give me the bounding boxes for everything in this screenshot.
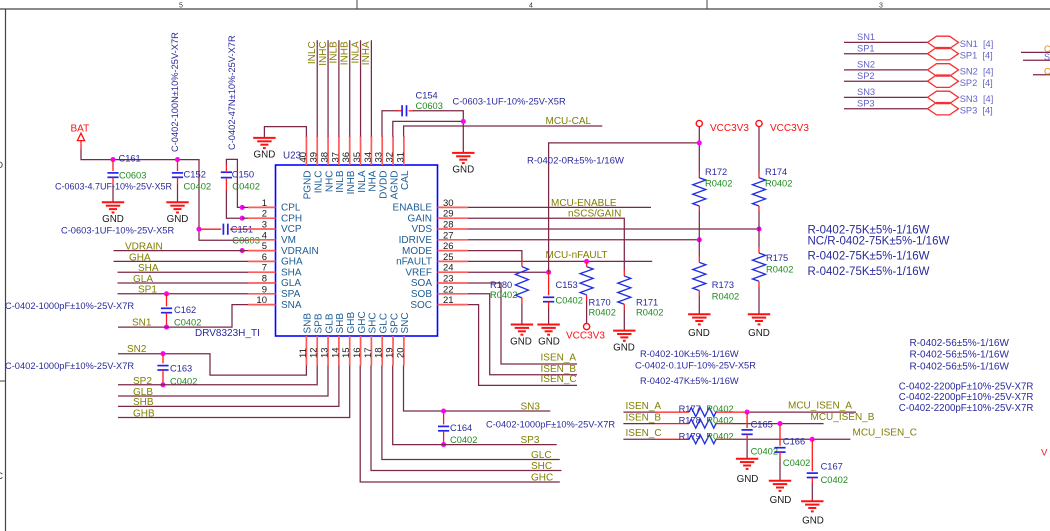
junction VCC3V3/0R xyxy=(697,140,702,145)
svg-text:SP3: SP3 xyxy=(857,98,875,108)
wire SNC to SN3 xyxy=(404,366,551,412)
svg-text:C-0402-47N±10%-25V-X7R: C-0402-47N±10%-25V-X7R xyxy=(227,35,237,150)
junction nFAULT/R170 xyxy=(584,259,589,264)
svg-text:10: 10 xyxy=(256,295,267,306)
svg-text:C-0402-2200pF±10%-25V-X7R: C-0402-2200pF±10%-25V-X7R xyxy=(899,392,1034,403)
value list ISEN notes xyxy=(635,349,756,386)
wire VREF to VCC3V3 via 0R xyxy=(549,143,700,272)
svg-text:C150: C150 xyxy=(232,169,254,180)
wire SN1 row to SNA xyxy=(118,305,248,328)
svg-text:37: 37 xyxy=(330,152,341,163)
svg-text:GND: GND xyxy=(254,149,276,160)
wire VDRAIN row xyxy=(114,250,249,252)
pin 1 CPL xyxy=(248,206,276,208)
svg-text:S: S xyxy=(1044,52,1050,62)
capacitor C165 xyxy=(742,412,753,459)
wire R172 to R173 xyxy=(698,206,700,262)
svg-text:25: 25 xyxy=(443,252,454,263)
svg-text:GND: GND xyxy=(167,214,189,225)
svg-text:C0402: C0402 xyxy=(556,295,583,305)
ground below C153 xyxy=(537,325,559,335)
svg-text:MCU_ISEN_C: MCU_ISEN_C xyxy=(853,428,917,439)
svg-text:GND: GND xyxy=(538,337,560,348)
svg-text:INLA: INLA xyxy=(357,170,368,193)
svg-text:GHB: GHB xyxy=(346,312,357,334)
op-amp U23 DRV8323H_TI body xyxy=(276,165,438,336)
svg-text:VCP: VCP xyxy=(281,224,302,235)
svg-text:INLB: INLB xyxy=(335,170,346,193)
svg-text:MODE: MODE xyxy=(402,246,432,257)
svg-text:GLB: GLB xyxy=(324,313,335,333)
capacitor C166 xyxy=(774,424,785,481)
svg-text:INHA: INHA xyxy=(361,41,372,65)
off-page connector SN3 xyxy=(928,91,959,103)
svg-text:GHB: GHB xyxy=(133,408,155,419)
svg-text:ISEN_C: ISEN_C xyxy=(541,374,577,385)
wire AGND to ground xyxy=(393,121,464,136)
resistor R172 xyxy=(693,178,706,206)
svg-text:SHC: SHC xyxy=(531,461,552,472)
power VCC3V3 below R170 xyxy=(584,324,590,330)
svg-text:SN1 [4]: SN1 [4] xyxy=(960,39,994,49)
svg-text:GLA: GLA xyxy=(281,278,301,289)
svg-text:R0402: R0402 xyxy=(705,179,732,189)
svg-text:C167: C167 xyxy=(821,462,843,472)
svg-text:R178: R178 xyxy=(679,416,701,426)
svg-text:NHC: NHC xyxy=(324,171,335,193)
svg-text:35: 35 xyxy=(352,152,363,163)
power VCC3V3 rail 1 xyxy=(696,120,702,126)
svg-text:15: 15 xyxy=(341,347,352,358)
svg-text:R0402: R0402 xyxy=(636,308,663,318)
ground below R175 xyxy=(748,314,770,324)
svg-text:VREF: VREF xyxy=(405,267,432,278)
svg-text:26: 26 xyxy=(443,241,454,252)
svg-text:C0402: C0402 xyxy=(821,475,848,485)
svg-text:ENABLE: ENABLE xyxy=(393,203,433,214)
svg-text:6: 6 xyxy=(262,252,267,263)
svg-text:R-0402-56±5%-1/16W: R-0402-56±5%-1/16W xyxy=(910,350,1010,361)
pin 9 SPA xyxy=(248,293,276,295)
svg-text:DVDD: DVDD xyxy=(379,171,390,199)
svg-text:C164: C164 xyxy=(450,423,472,433)
wire GHC row xyxy=(360,366,560,483)
svg-text:16: 16 xyxy=(352,347,363,358)
svg-text:C0402: C0402 xyxy=(783,458,810,468)
ground below C165 xyxy=(736,459,758,469)
junction BAT/C152 xyxy=(175,157,180,162)
pin 29 GAIN xyxy=(438,217,469,219)
junction SN1/C162 xyxy=(164,325,169,330)
wire INHC xyxy=(327,40,329,136)
wire GAIN nSCS/GAIN to R171 xyxy=(468,218,624,270)
svg-text:SP1: SP1 xyxy=(138,285,157,296)
svg-text:SN2: SN2 xyxy=(857,60,875,70)
pin 30 ENABLE xyxy=(438,206,469,208)
svg-text:SN2 [4]: SN2 [4] xyxy=(960,67,994,77)
svg-text:R172: R172 xyxy=(705,167,727,177)
svg-text:29: 29 xyxy=(443,209,454,220)
svg-text:SP2 [4]: SP2 [4] xyxy=(960,78,993,88)
wire GHB row xyxy=(118,366,350,418)
svg-text:20: 20 xyxy=(395,347,406,358)
pin 20 SNC xyxy=(403,336,405,366)
svg-text:C152: C152 xyxy=(184,169,206,180)
svg-text:C154: C154 xyxy=(416,90,438,100)
svg-text:MCU_ISEN_B: MCU_ISEN_B xyxy=(811,412,875,423)
svg-text:24: 24 xyxy=(443,263,454,274)
ground below R171 xyxy=(613,331,635,341)
svg-text:MCU_ISEN_A: MCU_ISEN_A xyxy=(788,401,852,412)
pin 40 PGND xyxy=(305,136,307,165)
wire SN3 to connector xyxy=(844,96,928,98)
svg-text:SP2: SP2 xyxy=(857,71,875,81)
svg-text:DRV8323H_TI: DRV8323H_TI xyxy=(195,328,260,339)
svg-text:INHB: INHB xyxy=(340,41,351,65)
svg-text:INHB: INHB xyxy=(346,170,357,194)
svg-text:34: 34 xyxy=(363,152,374,163)
svg-text:C-0402-0.1UF-10%-25V-X5R: C-0402-0.1UF-10%-25V-X5R xyxy=(635,360,756,370)
svg-text:C0402: C0402 xyxy=(450,435,477,445)
wire SHB row xyxy=(118,366,339,407)
junction MCU_ISEN_C xyxy=(810,437,815,442)
pin 27 IDRIVE xyxy=(438,239,469,241)
junction VREF/C153 xyxy=(546,270,551,275)
wire IDRIVE row xyxy=(468,239,699,241)
junction SN2/C163 xyxy=(160,351,165,356)
svg-text:GAIN: GAIN xyxy=(408,213,432,224)
svg-text:SOA: SOA xyxy=(411,278,432,289)
capacitor C162 xyxy=(161,294,172,327)
svg-text:12: 12 xyxy=(309,347,320,358)
svg-text:GLA: GLA xyxy=(133,274,153,285)
resistor R179 xyxy=(689,435,716,444)
junction SP2/C163 xyxy=(160,382,165,387)
pin 7 SHA xyxy=(248,271,276,273)
svg-text:C162: C162 xyxy=(174,305,196,315)
wire SN2 to connector xyxy=(844,69,928,71)
wire BAT bus to VM xyxy=(81,150,248,241)
svg-text:SN1: SN1 xyxy=(857,32,875,42)
svg-text:nFAULT: nFAULT xyxy=(396,257,432,268)
svg-text:C-0402-1000pF±10%-25V-X7R: C-0402-1000pF±10%-25V-X7R xyxy=(5,301,134,311)
svg-text:VDRAIN: VDRAIN xyxy=(125,241,163,252)
svg-text:NC/R-0402-75K±5%-1/16W: NC/R-0402-75K±5%-1/16W xyxy=(808,236,950,248)
junction IDRIVE/R172/R173 xyxy=(697,237,702,242)
svg-text:7: 7 xyxy=(262,263,267,274)
svg-text:GND: GND xyxy=(737,474,759,485)
pin 25 nFAULT xyxy=(438,260,469,262)
wire nFAULT MCU-nFAULT xyxy=(468,260,652,262)
svg-text:9: 9 xyxy=(262,284,267,295)
wire SOA to ISEN_A xyxy=(468,283,577,364)
wire ENABLE MCU-ENABLE xyxy=(468,206,651,208)
svg-text:C: C xyxy=(1044,66,1050,76)
wire INLA xyxy=(360,40,362,136)
resistor R174 xyxy=(753,178,766,206)
svg-text:SN1: SN1 xyxy=(132,317,152,328)
wire VCC3V3 to R172 xyxy=(698,127,700,179)
pin 17 SHC xyxy=(370,336,372,366)
svg-text:SN3 [4]: SN3 [4] xyxy=(960,94,994,104)
svg-text:R174: R174 xyxy=(765,167,787,177)
pin 31 CAL xyxy=(403,136,405,165)
pin 38 NHC xyxy=(327,136,329,165)
svg-text:C-0402-1000pF±10%-25V-X7R: C-0402-1000pF±10%-25V-X7R xyxy=(5,361,134,371)
svg-text:30: 30 xyxy=(443,198,454,209)
svg-text:C0402: C0402 xyxy=(184,181,212,192)
svg-text:VDS: VDS xyxy=(411,224,432,235)
svg-text:23: 23 xyxy=(443,274,454,285)
svg-text:GHC: GHC xyxy=(531,472,553,483)
svg-text:R0402: R0402 xyxy=(490,290,517,300)
junction AGND/DVDD ground xyxy=(461,119,466,124)
svg-text:SPA: SPA xyxy=(281,289,301,300)
svg-text:32: 32 xyxy=(385,152,396,163)
pin 19 SPC xyxy=(392,336,394,366)
value list 75K resistors xyxy=(808,225,950,279)
svg-text:PGND: PGND xyxy=(303,171,314,200)
svg-text:18: 18 xyxy=(374,347,385,358)
pin 18 GLC xyxy=(381,336,383,366)
svg-text:22: 22 xyxy=(443,284,454,295)
capacitor C153 xyxy=(543,272,554,324)
wire GLA row xyxy=(118,282,249,284)
wire SP1 row xyxy=(118,293,249,295)
svg-text:R179: R179 xyxy=(679,431,701,441)
svg-text:INLC: INLC xyxy=(314,171,325,194)
svg-text:C165: C165 xyxy=(751,420,773,430)
svg-text:SP3 [4]: SP3 [4] xyxy=(960,105,993,115)
pin 37 INLB xyxy=(338,136,340,165)
wire CAL MCU-CAL xyxy=(404,126,603,137)
svg-text:SN3: SN3 xyxy=(521,401,541,412)
svg-text:GND: GND xyxy=(688,328,710,339)
svg-text:GND: GND xyxy=(802,516,824,527)
junction MCU_ISEN_B xyxy=(777,421,782,426)
svg-text:CPH: CPH xyxy=(281,213,302,224)
wire INHA xyxy=(370,40,372,136)
pin 5 VDRAIN xyxy=(248,250,276,252)
capacitor C167 xyxy=(807,439,818,501)
pin 11 SNB xyxy=(305,336,307,366)
wire PGND to ground xyxy=(264,127,306,138)
off-page connector SP2 xyxy=(928,75,959,87)
wire SPC to SP3 xyxy=(393,366,557,445)
wire C150 bottom to CPH xyxy=(226,191,242,219)
svg-text:SP1: SP1 xyxy=(857,43,875,53)
svg-text:GND: GND xyxy=(613,343,635,354)
svg-text:GHA: GHA xyxy=(129,252,151,263)
ground below C167 xyxy=(801,501,823,511)
svg-text:IDRIVE: IDRIVE xyxy=(399,235,433,246)
svg-text:R-0402-10K±5%-1/16W: R-0402-10K±5%-1/16W xyxy=(640,349,739,359)
svg-text:SNA: SNA xyxy=(281,300,302,311)
wire SHC row xyxy=(371,366,561,471)
resistor R170 xyxy=(580,261,593,323)
svg-text:38: 38 xyxy=(320,152,331,163)
svg-text:2: 2 xyxy=(262,209,267,220)
svg-text:SN3: SN3 xyxy=(857,87,875,97)
wire SOB to ISEN_B xyxy=(468,294,577,375)
svg-text:C166: C166 xyxy=(783,437,805,447)
junction CPH xyxy=(240,216,245,221)
svg-text:ISEN_A: ISEN_A xyxy=(626,401,662,412)
svg-text:SHA: SHA xyxy=(281,267,302,278)
wire GLC row xyxy=(382,366,560,460)
wire MODE to R180 xyxy=(468,251,522,261)
svg-text:CAL: CAL xyxy=(400,170,411,190)
svg-text:R171: R171 xyxy=(636,298,658,308)
value list 56R resistors xyxy=(910,338,1010,373)
svg-text:GND: GND xyxy=(770,495,792,506)
resistor R178 xyxy=(689,419,716,428)
svg-text:MCU-CAL: MCU-CAL xyxy=(546,116,592,127)
svg-text:C-0603-4.7UF-10%-25V-X5R: C-0603-4.7UF-10%-25V-X5R xyxy=(55,182,173,192)
pin 15 GHB xyxy=(349,336,351,366)
wire right edge 2 xyxy=(1023,59,1050,61)
capacitor C154 xyxy=(397,105,415,116)
wire SN1 to connector xyxy=(844,41,928,43)
svg-text:VDRAIN: VDRAIN xyxy=(281,246,319,257)
svg-text:ISEN_B: ISEN_B xyxy=(626,412,662,423)
svg-text:NHA: NHA xyxy=(368,170,379,191)
pin 12 SPB xyxy=(316,336,318,366)
svg-text:R0402: R0402 xyxy=(706,431,733,441)
pin 22 SOB xyxy=(438,293,469,295)
svg-text:C-0402-1000pF±10%-25V-X7R: C-0402-1000pF±10%-25V-X7R xyxy=(486,419,615,429)
svg-text:SOB: SOB xyxy=(411,289,432,300)
svg-text:11: 11 xyxy=(298,348,309,358)
ground below R173 xyxy=(688,314,710,324)
svg-text:SHB: SHB xyxy=(133,397,154,408)
svg-text:INLC: INLC xyxy=(307,41,318,64)
wire SN2 row to SNB xyxy=(118,354,306,375)
wire SP3 to connector xyxy=(844,108,928,110)
svg-text:VM: VM xyxy=(281,235,296,246)
pin 13 GLB xyxy=(327,336,329,366)
ground below C161 xyxy=(102,202,124,212)
pin 8 GLA xyxy=(248,282,276,284)
svg-text:INHC: INHC xyxy=(318,41,329,65)
svg-text:R-0402-47K±5%-1/16W: R-0402-47K±5%-1/16W xyxy=(640,376,739,386)
svg-text:R-0402-75K±5%-1/16W: R-0402-75K±5%-1/16W xyxy=(808,266,930,278)
pin 28 VDS xyxy=(438,228,469,230)
wire VCC3V3 to R174 xyxy=(758,127,760,179)
pin 32 AGND xyxy=(392,136,394,165)
svg-text:AGND: AGND xyxy=(389,171,400,200)
svg-text:GLB: GLB xyxy=(133,387,153,398)
svg-text:ISEN_C: ISEN_C xyxy=(626,428,662,439)
resistor R180 xyxy=(515,261,528,325)
ground below R180 xyxy=(511,325,533,335)
svg-text:GND: GND xyxy=(510,337,532,348)
svg-text:BAT: BAT xyxy=(71,124,90,135)
svg-text:40: 40 xyxy=(298,152,309,163)
svg-text:ISEN_A: ISEN_A xyxy=(541,353,577,364)
svg-text:8: 8 xyxy=(262,274,267,285)
svg-text:nSCS/GAIN: nSCS/GAIN xyxy=(568,208,621,219)
pin 35 INLA xyxy=(360,136,362,165)
svg-text:SPC: SPC xyxy=(389,313,400,334)
svg-text:27: 27 xyxy=(443,230,454,241)
svg-text:R-0402-0R±5%-1/16W: R-0402-0R±5%-1/16W xyxy=(527,155,625,166)
wire SP2 row to SPB xyxy=(118,366,317,385)
wire VDS row xyxy=(468,228,759,230)
svg-text:5: 5 xyxy=(179,3,183,10)
off-page connector SP3 xyxy=(928,103,959,115)
svg-text:SNB: SNB xyxy=(303,313,314,334)
svg-text:C-0402-2200pF±10%-25V-X7R: C-0402-2200pF±10%-25V-X7R xyxy=(899,382,1034,393)
svg-text:INLB: INLB xyxy=(329,41,340,64)
capacitor C163 xyxy=(157,354,168,385)
svg-text:SP2: SP2 xyxy=(133,376,152,387)
svg-text:GND: GND xyxy=(102,214,124,225)
wire right edge 1 xyxy=(1021,51,1050,53)
capacitor C152 xyxy=(172,160,183,203)
svg-text:21: 21 xyxy=(443,295,454,306)
off-page connector SN1 xyxy=(928,36,959,48)
pin 34 NHA xyxy=(370,136,372,165)
wire R174 to R175 xyxy=(758,206,760,253)
svg-text:39: 39 xyxy=(309,152,320,163)
svg-text:SHC: SHC xyxy=(368,312,379,333)
junction BAT/C151 xyxy=(196,227,201,232)
pin 2 CPH xyxy=(248,217,276,219)
svg-text:C: C xyxy=(0,471,4,481)
svg-text:R0402: R0402 xyxy=(589,308,616,318)
junction BAT/C161 xyxy=(110,157,115,162)
svg-text:VCC3V3: VCC3V3 xyxy=(566,330,605,341)
wire pin2 CPH xyxy=(242,217,248,219)
pin 36 INHB xyxy=(349,136,351,165)
svg-text:INLA: INLA xyxy=(350,41,361,64)
svg-text:GHC: GHC xyxy=(357,311,368,333)
wire SHA row xyxy=(118,271,249,273)
svg-text:C0402: C0402 xyxy=(232,181,260,192)
resistor R177 xyxy=(689,408,716,417)
wire C154 to ground xyxy=(413,111,463,153)
pin 6 GHA xyxy=(248,260,276,262)
svg-text:R0402: R0402 xyxy=(706,416,733,426)
capacitor C161 xyxy=(107,160,118,203)
svg-text:D: D xyxy=(0,160,4,170)
wire ISEN_C row xyxy=(623,438,850,440)
pin 24 VREF xyxy=(438,271,469,273)
pin 26 MODE xyxy=(438,250,469,252)
wire SOC to ISEN_C xyxy=(468,305,577,386)
svg-text:28: 28 xyxy=(443,220,454,231)
junction SN3/C164 xyxy=(441,408,446,413)
svg-text:R175: R175 xyxy=(766,253,788,263)
ground below C152 xyxy=(166,202,188,212)
svg-text:MCU-nFAULT: MCU-nFAULT xyxy=(546,250,608,261)
pin 33 DVDD xyxy=(381,136,383,165)
svg-text:R180: R180 xyxy=(490,280,512,290)
svg-text:SHA: SHA xyxy=(138,263,159,274)
junction VDS/R174/R175 xyxy=(756,226,761,231)
svg-text:3: 3 xyxy=(262,220,267,231)
svg-text:R173: R173 xyxy=(712,280,734,290)
svg-text:3: 3 xyxy=(879,3,883,10)
wire SP2 to connector xyxy=(844,80,928,82)
wire GHA row xyxy=(114,260,249,262)
svg-text:14: 14 xyxy=(330,347,341,358)
svg-text:R177: R177 xyxy=(679,404,701,414)
capacitor C151 xyxy=(200,224,248,235)
junction CPL xyxy=(240,205,245,210)
value list 2200pF capacitors xyxy=(899,382,1034,415)
